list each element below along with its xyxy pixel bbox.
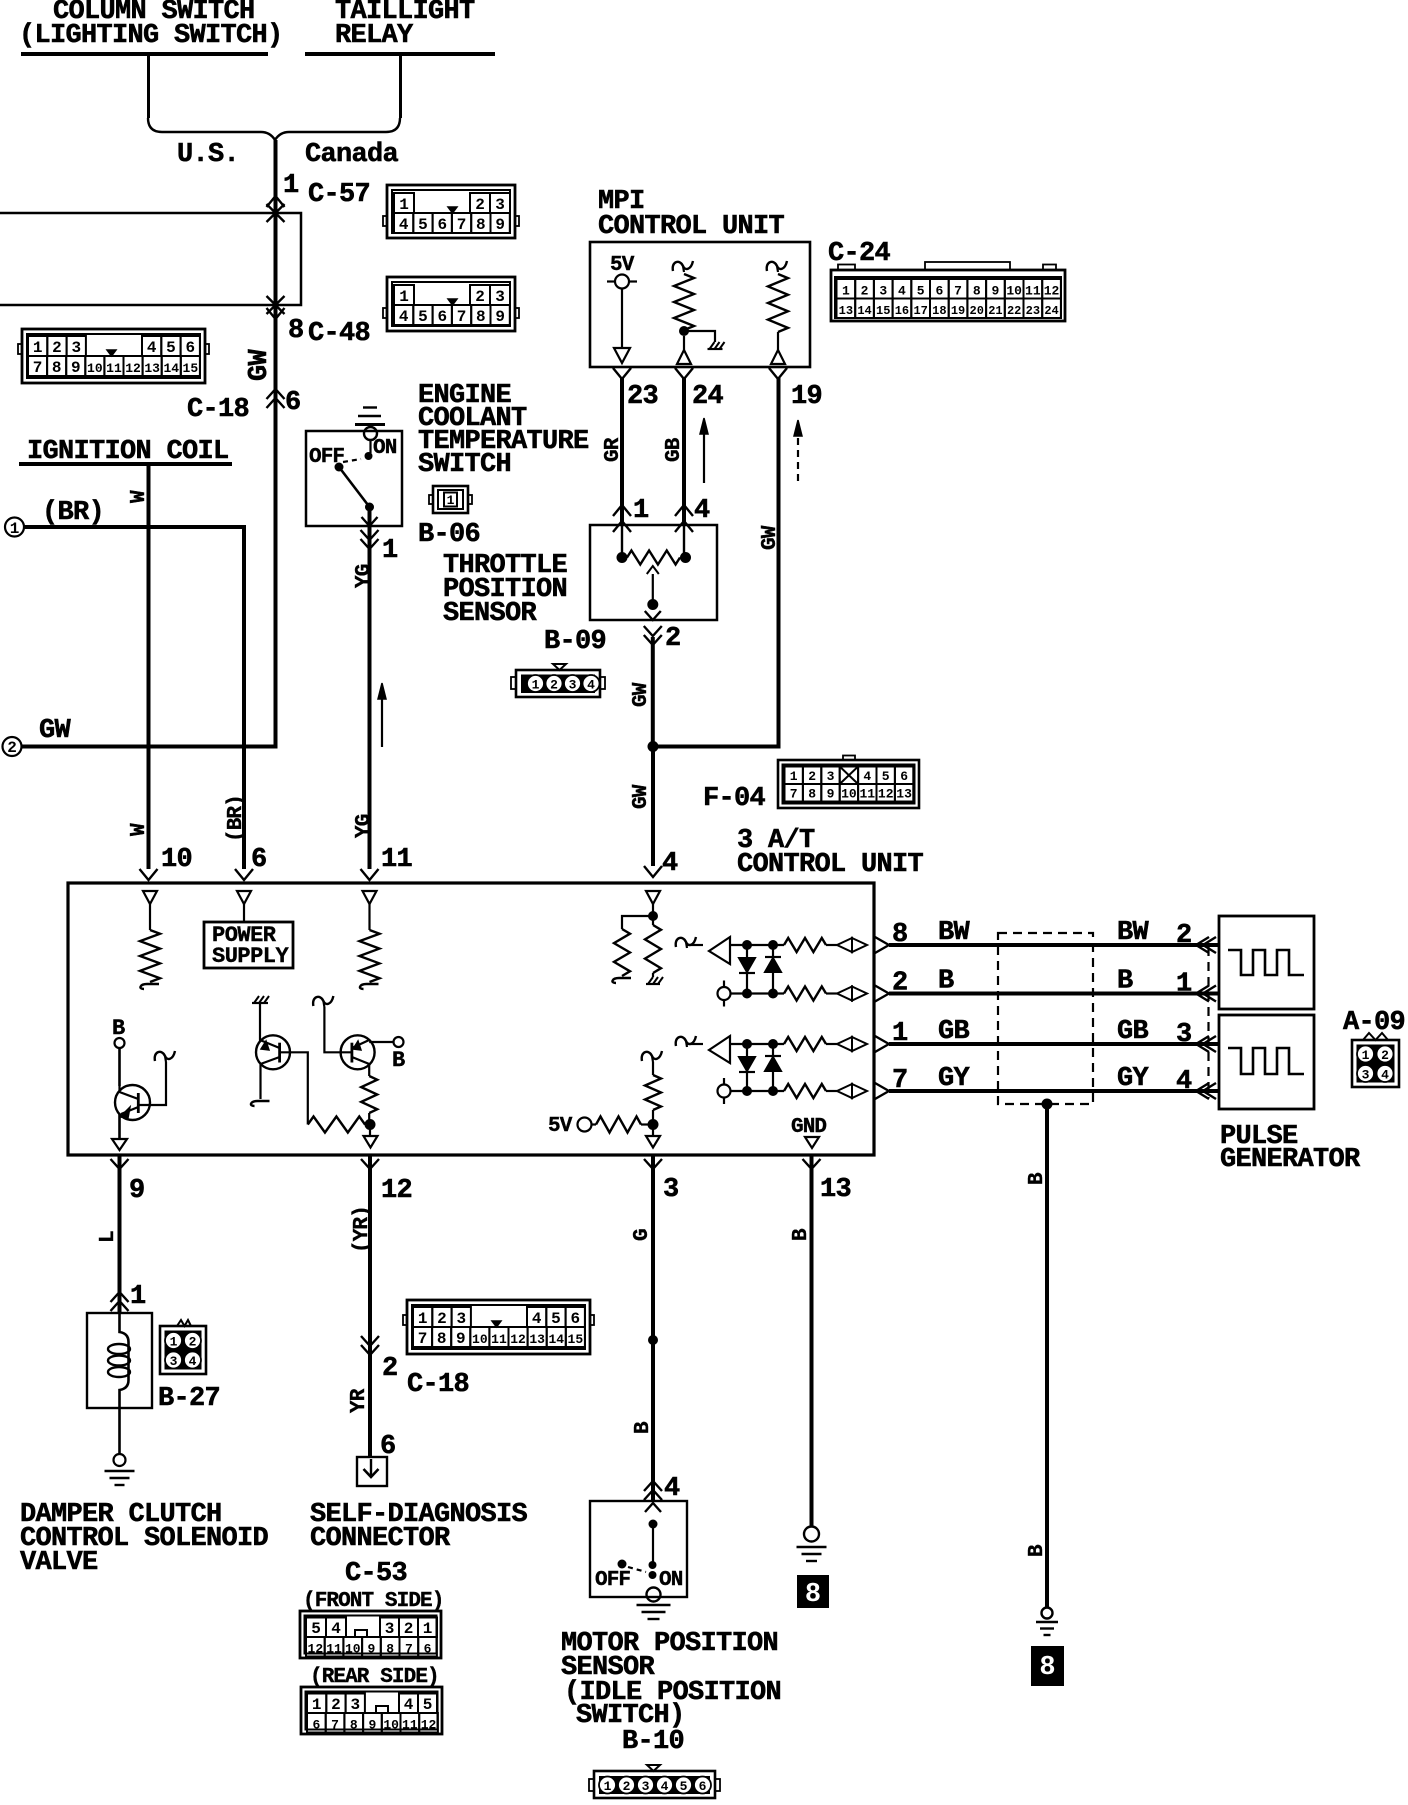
dashed lever to ON [343,459,361,462]
output resistor upper [784,938,826,952]
svg-text:9: 9 [827,787,835,802]
svg-text:RELAY: RELAY [335,21,414,51]
TPS wire pin1 to pot [621,525,623,558]
throttle position sensor box [590,525,717,620]
arrow below box pin 13 [803,1159,821,1169]
shield dashed line at pulse generator [1207,947,1209,1098]
svg-text:12: 12 [308,1642,324,1657]
wire to pin 24 triangle [683,336,685,350]
svg-text:2: 2 [861,284,869,299]
svg-text:23: 23 [627,382,658,412]
svg-text:9: 9 [71,359,81,377]
arrow up into C-57 pin 1 [267,196,285,207]
power supply box [204,922,293,968]
svg-text:8: 8 [476,216,486,234]
svg-text:11: 11 [491,1332,507,1347]
output resistor upper [784,1037,826,1051]
svg-text:11: 11 [859,787,875,802]
svg-text:B: B [1026,1172,1049,1185]
dashed direction arrow up on GW wire [797,434,799,481]
arrow below C-48 [267,308,285,319]
wire B pin 13 to ground [810,1155,814,1527]
terminal circle B Q1 [115,1038,125,1048]
svg-text:8: 8 [973,284,981,299]
svg-text:3: 3 [642,1779,650,1794]
transistor Q1 [115,1085,150,1139]
svg-text:7: 7 [418,1330,428,1348]
svg-text:1: 1 [312,1696,322,1714]
svg-text:6: 6 [935,284,943,299]
svg-text:15: 15 [568,1332,584,1347]
svg-text:GW: GW [630,784,653,809]
resistor under Q3 [361,1076,377,1113]
svg-text:BW: BW [1117,918,1150,948]
svg-text:8: 8 [386,1642,394,1657]
svg-text:5: 5 [680,1779,688,1794]
svg-text:7: 7 [790,787,798,802]
junction dot on wire [648,1335,658,1345]
page reference 8 black box [797,1575,829,1608]
svg-text:9: 9 [129,1176,145,1206]
wire GB A T pin 1 to pulse generator [889,1042,1219,1046]
svg-text:VALVE: VALVE [20,1548,98,1578]
svg-text:6: 6 [185,339,195,357]
svg-text:4: 4 [532,1310,542,1328]
MPS contact dots [649,1561,657,1569]
svg-text:12: 12 [421,1718,437,1733]
ground below shield wire [1036,1621,1058,1623]
wire G-B to motor position sensor [651,1155,655,1501]
svg-text:SENSOR: SENSOR [443,599,538,629]
svg-text:(LIGHTING SWITCH): (LIGHTING SWITCH) [19,21,283,51]
connector B-27 4-pin [160,1320,206,1374]
svg-text:1: 1 [1176,970,1192,1000]
svg-text:13: 13 [839,304,853,318]
comparator triangle [709,1036,730,1063]
arrow into A T box pin 10 [140,869,158,880]
comparator output line upper [730,1043,784,1045]
wire to pin 19 triangle [777,332,779,350]
svg-text:2: 2 [7,739,17,757]
pulse generator box upper [1219,916,1314,1009]
terminal circle B Q3 [394,1037,404,1047]
connector C-53 rear side [301,1687,442,1734]
svg-text:U.S.: U.S. [177,140,239,170]
svg-text:22: 22 [1007,304,1021,318]
triangle down at pin 3 [646,1136,660,1148]
connector B-10 6-pin [589,1765,720,1798]
wire BW A T pin 8 to pulse generator [889,943,1219,947]
Q2 base wire to resistor [280,1052,308,1124]
Q1 collector wire [118,1048,121,1086]
chevron at box edge upper [875,937,889,953]
wire GW from TPS pin 2 [651,637,655,747]
svg-text:21: 21 [988,304,1002,318]
svg-text:(REAR SIDE): (REAR SIDE) [310,1666,439,1689]
svg-text:GB: GB [938,1017,970,1047]
double chevron into pulse generator [1203,1036,1216,1052]
svg-text:11: 11 [326,1642,342,1657]
comparator triangle [709,937,730,964]
engine coolant temperature switch box B-06 [306,431,402,526]
svg-text:1: 1 [283,171,299,201]
potentiometer resistor [627,551,680,565]
svg-text:9: 9 [495,308,505,326]
wire GR MPI pin 23 to TPS pin 1 [620,378,624,525]
potentiometer right dot [680,552,691,563]
svg-text:3: 3 [350,1696,360,1714]
output triangles upper [837,938,852,952]
potentiometer left dot [617,552,628,563]
svg-text:1: 1 [447,493,455,508]
svg-text:9: 9 [992,284,1000,299]
svg-text:19: 19 [951,304,965,318]
svg-text:17: 17 [913,304,927,318]
connector B-09 4-pin [511,664,605,697]
svg-text:4: 4 [664,1474,680,1504]
connector A-09 4-pin [1352,1033,1399,1087]
junction dot MPI middle [679,326,689,336]
svg-text:18: 18 [932,304,946,318]
svg-text:1: 1 [842,284,850,299]
chevron at box edge upper [875,1036,889,1052]
svg-text:7: 7 [457,308,467,326]
switch wire to ON contact [369,440,371,453]
svg-text:9: 9 [368,1642,376,1657]
svg-text:SWITCH: SWITCH [418,450,511,480]
svg-text:3: 3 [456,1310,466,1328]
chevron at box edge lower [875,986,889,1002]
svg-text:CONTROL UNIT: CONTROL UNIT [598,212,785,242]
connector C-57 9-pin [383,185,519,238]
svg-text:3: 3 [71,339,81,357]
svg-text:1: 1 [399,196,409,214]
triangle down inside pin 11 [363,891,377,904]
hook above Q3 [313,996,333,1006]
junction dot GW [648,741,659,752]
OFF contact dot [335,463,344,472]
svg-text:BW: BW [938,918,971,948]
svg-text:C-18: C-18 [407,1370,469,1400]
shield junction dot [1042,1099,1053,1110]
svg-text:ON: ON [373,437,397,460]
svg-text:GW: GW [39,716,72,746]
svg-text:6: 6 [312,1718,320,1733]
comparator lower line [731,992,785,994]
svg-text:4: 4 [1381,1068,1389,1083]
wire GB MPI pin 24 to TPS pin 4 [682,378,686,525]
wire 5V to pin 23 triangle [621,289,623,349]
svg-text:16: 16 [895,304,909,318]
ground below solenoid [114,1454,126,1466]
svg-text:1: 1 [532,678,540,693]
svg-text:3: 3 [663,1175,679,1205]
motor position sensor box [590,1501,687,1597]
ground above coolant switch [355,423,385,426]
resistor under pin 10 [149,904,151,930]
svg-text:3: 3 [827,769,835,784]
Q1 base wire with hook [138,1062,166,1105]
arrow below box pin 9 [111,1159,129,1169]
svg-text:1: 1 [382,536,398,566]
svg-text:3: 3 [170,1354,178,1369]
MPS ground circle [647,1588,661,1602]
wire YR to self-diagnosis connector [368,1155,372,1457]
resistor from 5V to node [592,1123,597,1125]
resistor under pin 11 [368,904,370,930]
svg-text:4: 4 [399,216,409,234]
terminal circle 1 [5,518,24,537]
svg-text:C-57: C-57 [308,180,370,210]
svg-text:GW: GW [759,525,782,550]
arrow below box pin 3 [644,1159,662,1169]
triangle down inside pin 6 [237,891,251,904]
svg-text:4: 4 [661,1779,669,1794]
svg-text:B-09: B-09 [544,627,606,657]
arrow inside TPS pin 4 [675,521,693,532]
svg-text:8: 8 [437,1330,447,1348]
svg-text:(BR): (BR) [42,498,104,528]
svg-text:2: 2 [437,1310,447,1328]
wire YG leaving switch [368,507,372,869]
svg-text:8: 8 [476,308,486,326]
direction arrow up between TPS wires [703,432,705,483]
ground below MPS [637,1604,671,1606]
ON contact dot [365,452,373,460]
double arrow down on YR wire [361,1336,379,1346]
branch to chassis ground MPI [684,331,715,342]
svg-text:13: 13 [144,361,160,376]
triangle down inside pin 4 [646,891,660,904]
output resistor lower [784,1084,826,1098]
double arrow below switch [361,530,379,540]
svg-text:1: 1 [633,496,649,526]
svg-text:5: 5 [551,1310,561,1328]
svg-text:2: 2 [404,1620,414,1638]
svg-text:W: W [128,823,151,836]
right resistor of pin 4 pair [652,916,654,925]
svg-text:G: G [631,1229,654,1241]
arrow into A T box pin 11 [361,869,379,880]
wire from taillight relay [399,56,402,118]
arrow inside terminal [370,1459,372,1477]
svg-text:B-06: B-06 [418,520,480,550]
svg-text:4: 4 [694,496,710,526]
triangle down at pin 9 [112,1139,127,1150]
svg-text:L: L [97,1231,120,1243]
svg-text:7: 7 [331,1718,339,1733]
connector C-18 15-pin [18,329,209,383]
svg-text:10: 10 [1006,284,1022,299]
svg-text:1: 1 [130,1282,146,1312]
chevron at box edge lower [875,1083,889,1099]
svg-text:7: 7 [892,1066,908,1096]
svg-text:14: 14 [548,1332,564,1347]
svg-text:C-18: C-18 [187,395,249,425]
TPS wire pin4 to pot [683,525,685,558]
svg-text:19: 19 [791,382,822,412]
svg-text:9: 9 [456,1330,466,1348]
svg-text:8: 8 [52,359,62,377]
double arrow on wire to MPS [644,1481,662,1491]
svg-text:5: 5 [917,284,925,299]
svg-text:15: 15 [876,304,890,318]
svg-text:OFF: OFF [595,1569,630,1592]
Q2 emitter hook [251,1101,270,1106]
svg-text:1: 1 [892,1019,908,1049]
wire B shield to ground [1045,1104,1049,1608]
svg-text:GW: GW [630,682,653,707]
svg-text:ON: ON [659,1569,683,1592]
wire L to solenoid [118,1155,122,1313]
wire from column switch [147,56,150,118]
svg-text:B: B [938,967,954,997]
svg-text:13: 13 [820,1175,851,1205]
square wave lower [1228,1048,1304,1074]
svg-text:B: B [790,1228,813,1241]
svg-text:24: 24 [692,382,724,412]
svg-text:7: 7 [954,284,962,299]
svg-text:23: 23 [1026,304,1040,318]
svg-text:C-48: C-48 [308,319,370,349]
svg-text:B: B [1117,967,1133,997]
svg-text:F-04: F-04 [703,784,766,814]
triangle down inside pin 10 [143,891,157,904]
svg-text:3: 3 [569,678,577,693]
svg-text:12: 12 [878,787,894,802]
arrow at TPS exit [645,611,661,620]
svg-text:GY: GY [1117,1064,1150,1094]
comparator lower line [731,1090,785,1092]
svg-text:6: 6 [699,1779,707,1794]
svg-text:1: 1 [399,288,409,306]
ground circle pin 13 [804,1527,819,1542]
svg-text:1: 1 [1362,1048,1370,1063]
shield dashed box [998,933,1093,1104]
svg-text:14: 14 [857,304,871,318]
svg-text:2: 2 [892,969,908,999]
svg-text:8: 8 [808,787,816,802]
triangle down at GND pin 13 [805,1137,819,1148]
triangle down at MPI pin 23 [614,348,630,363]
svg-text:(FRONT SIDE): (FRONT SIDE) [303,1590,443,1613]
svg-text:3: 3 [495,288,505,306]
svg-text:1: 1 [10,520,20,538]
page reference 8 black box right [1031,1646,1064,1686]
svg-text:6: 6 [251,845,267,875]
arrow at switch box exit [362,517,378,526]
svg-text:4: 4 [331,1620,341,1638]
svg-text:GB: GB [663,437,686,462]
wire to power supply [243,904,245,922]
svg-text:(YR): (YR) [351,1206,374,1253]
lever end dot [365,503,374,512]
wiper junction dot [647,599,658,610]
svg-text:6: 6 [285,388,301,418]
svg-text:GENERATOR: GENERATOR [1220,1145,1361,1175]
svg-text:24: 24 [1044,304,1058,318]
svg-text:4: 4 [404,1696,414,1714]
svg-text:7: 7 [457,216,467,234]
svg-text:3: 3 [1176,1020,1192,1050]
diode node dots [742,1039,752,1049]
pulse generator box lower [1219,1015,1314,1109]
svg-text:1: 1 [604,1779,612,1794]
svg-text:12: 12 [1044,284,1060,299]
wire W from ignition coil to pin 10 [147,466,151,869]
MPS junction dot [649,1520,658,1529]
svg-text:2: 2 [665,624,681,654]
comparator output line upper [730,944,784,946]
node dot at pin 12 leg [365,1119,376,1130]
svg-text:11: 11 [381,845,413,875]
svg-text:GY: GY [938,1064,971,1094]
diode node dots [742,940,752,950]
MPS dashed lever [628,1567,646,1572]
MPS switch wire [652,1524,654,1565]
svg-text:B-27: B-27 [158,1384,220,1414]
svg-text:4: 4 [863,769,871,784]
resistor in MPI right leg [767,261,787,271]
svg-text:2: 2 [550,678,558,693]
svg-text:6: 6 [570,1310,580,1328]
svg-text:2: 2 [52,339,62,357]
wire GW MPI pin 19 down to junction [653,378,779,747]
triangle up at MPI pin 24 [677,350,691,364]
svg-text:CONTROL UNIT: CONTROL UNIT [737,850,924,880]
comparator input hook upper [676,1036,696,1046]
svg-text:B-10: B-10 [622,1727,684,1757]
svg-text:C-53: C-53 [345,1559,407,1589]
svg-text:5: 5 [882,769,890,784]
svg-text:4: 4 [587,678,595,693]
resistor above pin 3 node [642,1051,662,1061]
triangle up at MPI pin 19 [771,350,785,364]
svg-text:5: 5 [418,308,428,326]
svg-text:2: 2 [189,1335,197,1350]
terminal circle 2 [3,737,22,756]
svg-text:(BR): (BR) [225,795,248,842]
wire GW junction to A T pin 4 [651,747,655,867]
switch common circle [364,427,377,440]
chassis ground under right resistor [652,973,654,977]
svg-text:1: 1 [33,339,43,357]
svg-text:12: 12 [125,361,141,376]
svg-text:5: 5 [418,216,428,234]
connector C-48 9-pin [383,277,519,331]
connector C-24 24-pin [831,262,1065,321]
svg-text:3: 3 [495,196,505,214]
svg-text:11: 11 [106,361,122,376]
square wave upper [1228,950,1304,975]
svg-text:6: 6 [437,308,447,326]
column switch underline [21,52,268,56]
ground below pin 13 wire [797,1546,827,1548]
svg-text:20: 20 [970,304,984,318]
svg-text:2: 2 [1176,921,1192,951]
svg-text:9: 9 [495,216,505,234]
svg-text:13: 13 [896,787,912,802]
ignition coil underline [19,462,232,466]
svg-text:SUPPLY: SUPPLY [212,944,290,969]
crossing arrow at C-48 pin 8 [267,296,285,314]
transistor Q3 [341,1035,375,1076]
svg-text:5: 5 [166,339,176,357]
A T control unit box [68,883,874,1155]
svg-text:YR: YR [348,1388,371,1413]
svg-text:Canada: Canada [305,140,399,170]
arrow into A T box pin 4 [644,866,662,877]
